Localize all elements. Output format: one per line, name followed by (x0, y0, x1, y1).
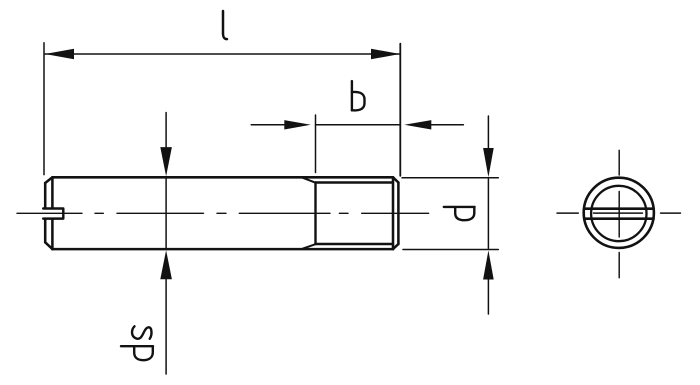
right chamfer line (392, 177, 395, 249)
dimension d extension lines (402, 178, 498, 250)
arrowhead ds up (160, 250, 172, 279)
screw body outline (52, 177, 393, 249)
dimension ds line bottom (165, 279, 167, 374)
slot (side view) (43, 209, 63, 219)
right chamfer diagonals (393, 177, 398, 249)
end view thread minor circle (591, 186, 646, 241)
left chamfer diagonals (45, 177, 52, 249)
end view horizontal centerline (557, 212, 681, 214)
dimension b line (251, 124, 463, 126)
dimension l extension line left (43, 43, 45, 175)
dimension ds line top (165, 113, 167, 148)
arrowhead ds down (160, 147, 172, 176)
end view outer circle (584, 178, 654, 248)
dimension d line bottom (487, 279, 489, 314)
label ds (121, 326, 153, 360)
centerline side view (17, 212, 429, 214)
arrowhead b right (404, 120, 431, 129)
left chamfer line (51, 177, 54, 249)
arrowhead l left (45, 49, 74, 60)
left face (44, 183, 47, 242)
thread root lines (316, 183, 394, 245)
dimension b extension line (315, 115, 317, 173)
arrowhead b left (284, 120, 311, 129)
label b (352, 81, 365, 110)
arrowhead l right (371, 49, 400, 60)
right end face (397, 183, 400, 245)
end view slot lines (584, 209, 653, 219)
dimension l/b extension line right (399, 44, 401, 176)
dimension l line (45, 53, 400, 55)
d line middle (487, 179, 489, 248)
label l (223, 11, 227, 39)
label d (444, 207, 475, 220)
dimension d line top (487, 116, 489, 149)
arrowhead d up (483, 250, 494, 279)
end view vertical centerline (618, 150, 620, 277)
thread runout diagonals (303, 178, 316, 249)
thread start line (314, 183, 316, 245)
arrowhead d down (483, 148, 494, 177)
ds line through body (165, 179, 167, 248)
